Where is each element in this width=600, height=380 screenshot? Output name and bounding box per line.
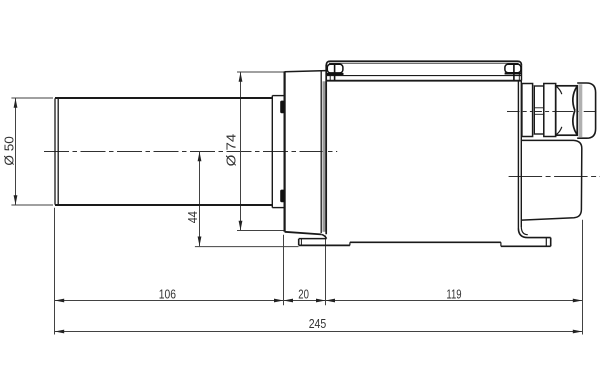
lid top inner line — [329, 62, 519, 64]
lid top — [326, 61, 521, 65]
dimension D50 line — [15, 98, 17, 205]
bottom dimension extension lines — [55, 208, 583, 335]
svg-text:44: 44 — [186, 211, 200, 223]
shaft collar ring — [272, 96, 284, 208]
gland dome shade band — [579, 84, 583, 137]
gland hex chamfer arcs left — [557, 87, 562, 95]
svg-text:20: 20 — [298, 286, 309, 301]
mounting plate rear — [517, 81, 519, 229]
dimension row 245 line — [55, 331, 583, 333]
dimension D74 line — [240, 72, 242, 231]
right foot edge — [545, 238, 547, 247]
svg-text:119: 119 — [446, 286, 461, 301]
centerline bracket hole axis — [509, 176, 600, 178]
dimension D74 extension lines — [237, 72, 284, 231]
left foot face — [298, 239, 300, 246]
svg-text:Ø 74: Ø 74 — [224, 134, 238, 167]
terminal box right — [521, 140, 581, 220]
bracket bend outer — [518, 229, 550, 238]
gland hex nut — [556, 86, 578, 135]
bracket bend inner — [521, 227, 528, 235]
lid screw left — [327, 64, 344, 80]
bottom step left — [349, 242, 351, 245]
right foot bottom — [501, 245, 551, 247]
housing top edge — [326, 80, 521, 82]
lid right face — [521, 65, 523, 81]
dimension D50 extension lines — [11, 98, 53, 205]
clamp lug bottom — [280, 190, 284, 203]
gland hex chamfer arc top-right — [573, 86, 577, 110]
centerline cable gland axis — [507, 111, 599, 113]
bottom step right — [500, 242, 502, 246]
housing bottom-left corner — [321, 234, 326, 238]
lid bottom joint — [326, 75, 521, 77]
motor front shade band — [323, 81, 326, 232]
gland neck grooves — [534, 107, 544, 109]
motor front edge thin — [320, 71, 322, 233]
gland body — [544, 84, 556, 137]
gland hex chamfer arc bottom-right — [573, 111, 577, 135]
gland dome cap — [577, 83, 595, 138]
gland locknut — [522, 84, 533, 137]
adapter bottom edge — [285, 232, 322, 235]
adapter top edge — [285, 71, 326, 72]
svg-text:Ø 50: Ø 50 — [3, 136, 17, 166]
dimension 44 extension line — [195, 246, 299, 248]
centerline main axis — [44, 151, 337, 153]
motor front face — [325, 65, 327, 234]
gearbox front face D74 — [284, 71, 286, 231]
clamp lug top — [280, 101, 284, 114]
dimension row 106/20/119 line — [55, 300, 583, 302]
shaft cylinder D50 — [55, 98, 272, 205]
svg-text:245: 245 — [309, 316, 327, 331]
gland shade band 1 — [533, 86, 535, 134]
housing bottom mid — [350, 241, 501, 243]
lid screw right — [505, 64, 522, 80]
svg-text:106: 106 — [159, 286, 176, 301]
dimension 44 line — [199, 152, 201, 247]
left foot top — [299, 238, 327, 240]
left foot bottom — [299, 244, 350, 246]
gland neck — [534, 86, 544, 134]
